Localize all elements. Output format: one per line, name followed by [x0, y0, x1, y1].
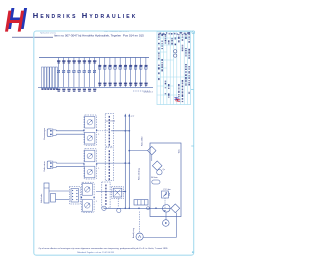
- drawing frame border: [34, 31, 194, 255]
- sample point circle: [147, 207, 150, 210]
- coupling column 13: [119, 58, 122, 88]
- coupling column 18: [144, 58, 147, 88]
- relief valve RV1: [162, 191, 170, 198]
- valve station VS2 (flow controls): [83, 149, 99, 179]
- wire strip to rails: [112, 130, 130, 132]
- hose A3 wire: [49, 190, 69, 192]
- hose A1 wire: [56, 130, 84, 132]
- hose A2 wire: [56, 162, 84, 164]
- pump P1 (circle): [163, 205, 171, 213]
- accumulator capsule: [152, 180, 160, 184]
- frame corner dot bottom-right: [192, 251, 194, 253]
- svg-text:Hefcilinder: Hefcilinder: [41, 193, 43, 203]
- pressure gauge G2: [117, 208, 121, 212]
- junction pipe-T: [128, 207, 130, 209]
- junction VS3-P: [124, 191, 126, 193]
- junction pipe-P: [124, 207, 126, 209]
- title block field texts: [158, 32, 190, 102]
- company logo H (blue stroke): [8, 8, 27, 29]
- VS3 terminal strip: [102, 182, 110, 208]
- coupling column 8: [93, 58, 96, 92]
- title block grid: [157, 32, 191, 105]
- valve V1 (2/2 solenoid): [112, 187, 124, 199]
- hose B3 wire: [56, 199, 70, 201]
- svg-text:P1 5 bar: P1 5 bar: [164, 188, 172, 191]
- VS2 terminal strip: [105, 148, 113, 181]
- coupling column 9: [98, 58, 101, 88]
- svg-text:Item no 007-3047 bij Hendriks: Item no 007-3047 bij Hendriks Hydrauliek…: [54, 34, 144, 38]
- cylinder stack (hose bundle) left: [42, 67, 58, 88]
- junction manifold: [138, 207, 140, 209]
- relief pilot wire: [164, 198, 166, 208]
- wire VS3 to rail: [96, 191, 125, 193]
- frame fold mark right upper: [191, 89, 194, 91]
- junction VS2-T: [128, 162, 130, 164]
- electric motor M2 (circle): [136, 233, 143, 240]
- valve station VS3: [81, 182, 97, 212]
- junction VS2-P: [124, 162, 126, 164]
- coupling column 4: [72, 58, 75, 92]
- title block mini logo: [174, 97, 180, 102]
- coupling column 14: [124, 58, 127, 88]
- svg-text:P T: P T: [131, 116, 135, 118]
- return wire to F1: [129, 150, 147, 152]
- hose B2 wire: [56, 165, 84, 167]
- svg-text:Bovenwagen: Bovenwagen: [44, 128, 46, 140]
- svg-text:Retourfilter: Retourfilter: [141, 136, 144, 146]
- rail P arrowhead: [124, 114, 126, 117]
- motor M1 (circle): [163, 220, 170, 227]
- pressure gauge G1: [102, 206, 106, 210]
- svg-text:1: 1: [98, 168, 99, 170]
- valve station VS1 (flow controls): [83, 115, 99, 145]
- cylinder CYL2 with label: [43, 161, 56, 172]
- return bus wire (bottom): [38, 86, 153, 88]
- wire VS1 to rails: [97, 130, 130, 132]
- suction pipe wire: [104, 207, 171, 209]
- svg-text:Hendriks Hydrauliek: Hendriks Hydrauliek: [33, 11, 138, 20]
- stack port labels: [41, 89, 58, 90]
- rail T arrowhead: [128, 114, 130, 117]
- coupling column 12: [114, 58, 117, 88]
- svg-text:90 l/min: 90 l/min: [151, 177, 158, 179]
- wire VS2 to rails: [97, 162, 130, 164]
- junction VS1-P: [124, 130, 126, 132]
- frame corner curl: [192, 31, 195, 34]
- pressure rail P: [124, 115, 126, 209]
- manifold block: [134, 200, 148, 205]
- motor shaft wire: [165, 212, 167, 220]
- svg-text:1: 1: [96, 201, 97, 203]
- hose B1 wire: [56, 133, 84, 135]
- svg-text:Aandrijving: Aandrijving: [132, 228, 135, 238]
- coupling column 3: [67, 58, 70, 92]
- wire F1 down: [151, 155, 153, 161]
- return filter F1 (diamond): [148, 146, 156, 154]
- breather filter F2 (diamond): [152, 161, 162, 171]
- level gauge circle: [157, 170, 162, 175]
- svg-text:schema 1:2: schema 1:2: [144, 92, 153, 94]
- supply bus wire (top): [39, 57, 149, 59]
- coupling column 1: [57, 58, 60, 92]
- pressure filter F3 (diamond): [171, 204, 180, 213]
- cylinder CYL1 with label: [44, 128, 56, 140]
- coupling column 7: [88, 58, 91, 92]
- coupling column 5: [78, 58, 81, 92]
- coupling column 11: [109, 58, 112, 88]
- svg-text:Op al onze offertes en leverin: Op al onze offertes en leveringen zijn o…: [38, 247, 168, 250]
- svg-text:Tank: Tank: [178, 149, 180, 153]
- svg-text:Retourleiding: Retourleiding: [138, 168, 141, 180]
- coupling wire dashed: [139, 212, 141, 234]
- coupling column 16: [134, 58, 137, 88]
- junction pump-in: [155, 207, 157, 209]
- drive loop wire: [143, 213, 176, 238]
- junction return-T: [128, 150, 130, 152]
- company logo H (red stroke): [5, 11, 24, 32]
- inline valve V2 (lock block): [69, 187, 80, 205]
- dashed return stub: [133, 90, 150, 92]
- coupling column 10: [103, 58, 106, 88]
- coupling column 17: [139, 58, 142, 88]
- header rule under logo: [12, 36, 53, 38]
- svg-text:Qv: Qv: [163, 169, 165, 171]
- svg-text:Ondersteun: Ondersteun: [43, 161, 46, 171]
- VS1 terminal strip: [105, 113, 113, 146]
- svg-text:Rabobank Tegelen • rek.no. 15.: Rabobank Tegelen • rek.no. 15.07.04.333: [77, 252, 115, 254]
- coupling column 15: [129, 58, 132, 88]
- title block stamp circles: [174, 50, 177, 58]
- wire V1 to rail T: [123, 191, 125, 193]
- power unit enclosure (tank): [150, 143, 181, 217]
- junction VS1-T: [128, 130, 130, 132]
- pilot wire V1 down: [117, 199, 119, 207]
- frame fold mark right: [191, 145, 194, 147]
- tank rail T: [128, 115, 130, 209]
- svg-text:1: 1: [98, 134, 99, 136]
- coupling column 6: [83, 58, 86, 92]
- coupling column 2: [62, 58, 65, 92]
